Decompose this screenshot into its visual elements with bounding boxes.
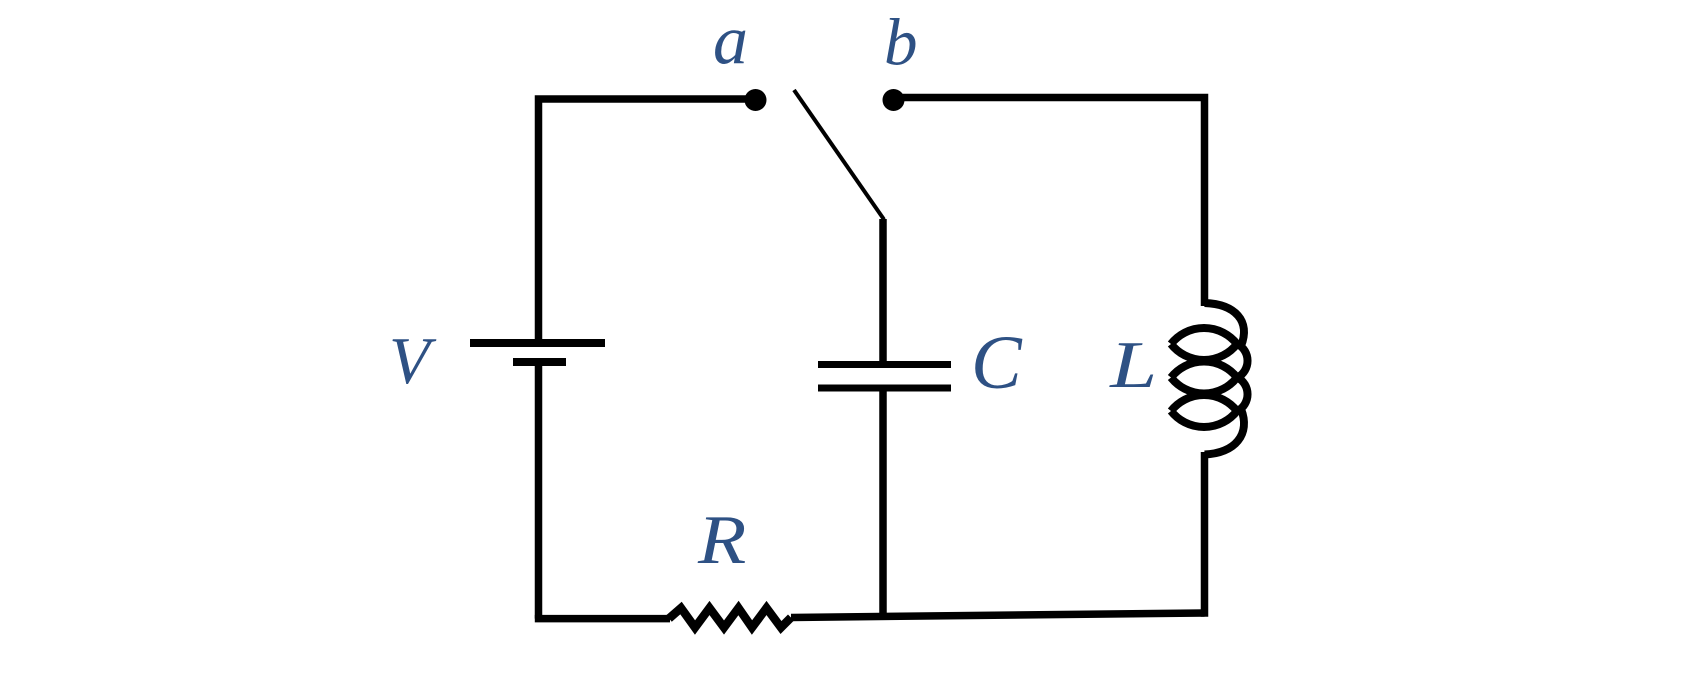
svg-text:V: V xyxy=(389,324,437,398)
svg-text:R: R xyxy=(697,501,746,579)
svg-text:C: C xyxy=(971,321,1023,405)
svg-text:a: a xyxy=(713,3,748,80)
svg-text:L: L xyxy=(1109,328,1157,402)
svg-text:b: b xyxy=(884,6,918,80)
